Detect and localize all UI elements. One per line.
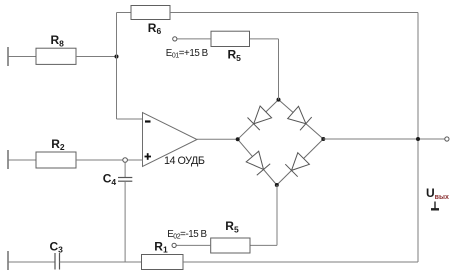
wire bridge bottom to R5 row — [276, 185, 278, 245]
svg-text:E02=-15 В: E02=-15 В — [167, 229, 207, 240]
capacitor C3 — [55, 253, 60, 270]
wire C3 to R1 — [60, 261, 142, 263]
wire terminal1 to R8 — [8, 56, 36, 58]
wire bridge right to output — [323, 138, 445, 140]
resistor R1 — [142, 255, 184, 270]
node bridge top — [277, 98, 281, 102]
resistor R8 — [36, 48, 76, 64]
wire bridge top to R5 row — [278, 39, 280, 100]
node bridge bottom — [275, 183, 279, 187]
wire feedback vertical — [116, 13, 118, 120]
wire op-amp output to bridge — [197, 138, 238, 140]
diode VD3 (bottom-left) — [246, 151, 263, 169]
op-amp plus sign — [145, 153, 152, 160]
wire C4 tap down — [124, 162, 126, 177]
op-amp minus sign — [145, 120, 151, 122]
diode VD2 (top-right) — [288, 106, 306, 123]
wire feedback top to R6 — [117, 12, 132, 14]
wire C4 down to bottom row — [124, 181, 126, 262]
wire R5 top right segment — [250, 38, 279, 40]
resistor R2 — [36, 152, 76, 168]
node output junction on rail — [416, 137, 420, 141]
diode bridge frame — [238, 100, 324, 185]
input terminal 2 (middle-left) — [7, 150, 9, 169]
wire terminal3 to C3 — [8, 261, 55, 263]
wire R2 to plus input — [76, 159, 143, 161]
terminal E01 (open circle) — [173, 37, 177, 41]
input terminal 3 (bottom-left) — [7, 251, 9, 270]
wire terminal2 to R2 — [8, 159, 36, 161]
node bridge right — [321, 137, 325, 141]
resistor R6 — [131, 6, 170, 20]
arrow below U vyh — [434, 202, 436, 209]
wire R1 to right rail (bottom) — [183, 261, 418, 263]
capacitor C4 — [118, 178, 132, 182]
diode VD4 (bottom-right) — [292, 153, 310, 171]
terminal output (open circle) — [445, 137, 449, 141]
op-amp U1 (14 OUDB) — [143, 113, 198, 167]
wire R5 bottom right segment — [250, 244, 277, 246]
resistor R5 (bottom) — [211, 238, 250, 253]
diode VD1 (top-left) — [254, 106, 272, 124]
input terminal 1 (top-left) — [7, 47, 9, 66]
terminal E02 (open circle) — [172, 243, 176, 247]
wire inverting input — [117, 118, 143, 120]
wire right rail vertical — [417, 13, 419, 263]
node bridge left — [236, 137, 240, 141]
wire R8 to feedback node — [76, 56, 117, 58]
wire E01 to R5 — [177, 38, 211, 40]
wire R6 to right rail — [170, 12, 418, 14]
svg-text:14 ОУДБ: 14 ОУДБ — [164, 155, 205, 167]
wire E02 to R5 bottom — [176, 244, 211, 246]
node A (R8/feedback junction) — [115, 55, 119, 59]
node C4 tap (open circle) — [123, 158, 128, 163]
resistor R5 (top) — [211, 31, 250, 46]
